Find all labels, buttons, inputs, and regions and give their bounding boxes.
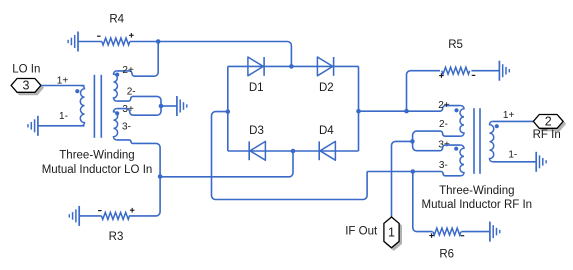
- polarity dot winding 1 LO: [75, 89, 79, 93]
- svg-text:2-: 2-: [439, 119, 448, 130]
- port 1 IF Out: [384, 217, 402, 250]
- svg-text:3: 3: [23, 79, 30, 93]
- svg-text:1-: 1-: [508, 150, 517, 161]
- svg-text:R6: R6: [439, 249, 454, 261]
- polarity dot winding 3 LO: [115, 111, 119, 115]
- label D2: [319, 82, 334, 94]
- label 1- (LO primary): [59, 111, 68, 122]
- wire bridge right to RF winding 2+: [359, 106, 461, 112]
- svg-text:D2: D2: [319, 82, 334, 94]
- ground G5 (R5 reference): [499, 61, 509, 81]
- svg-text:2+: 2+: [122, 65, 134, 76]
- wire RF winding 1+ to port 2: [493, 120, 534, 122]
- node N3 junction 3-/bridge-bottom: [158, 174, 163, 179]
- svg-text:1+: 1+: [503, 110, 515, 121]
- svg-text:3-: 3-: [122, 122, 131, 133]
- node N1 junction R4/2+: [156, 39, 161, 44]
- wire RF winding 1- to ground: [493, 161, 537, 163]
- polarity mark R3 minus: [98, 210, 102, 212]
- label 3- (LO winding3): [122, 122, 131, 133]
- mutual inductor LO core: [94, 75, 101, 138]
- wire node N3 to bridge bottom mid: [160, 151, 293, 177]
- label 3- (RF winding3): [439, 160, 448, 171]
- svg-text:1+: 1+: [57, 76, 69, 87]
- port 2 RF In: [533, 115, 565, 131]
- svg-text:D3: D3: [249, 125, 264, 137]
- node N4 junction D1/D2: [289, 64, 294, 69]
- svg-text:R5: R5: [448, 39, 463, 51]
- wire RF winding 2- to IF bar: [413, 131, 461, 141]
- label RF In: [533, 129, 561, 141]
- label R4: [109, 14, 124, 26]
- polarity mark R5 minus: [472, 74, 476, 76]
- wire bridge right rail: [358, 66, 360, 151]
- diode D1: [248, 57, 264, 76]
- mutual inductor RF: winding 3: [460, 145, 464, 176]
- wire winding 3- down to R3: [117, 140, 160, 216]
- polarity mark R6 plus: [429, 233, 434, 238]
- label 1+ (LO primary): [57, 76, 69, 87]
- wire RF winding 3+ to IF bar: [413, 141, 461, 150]
- mutual inductor LO: winding 3: [114, 109, 118, 140]
- wire LO port to winding 1+: [41, 85, 85, 87]
- svg-text:Mutual Inductor LO In: Mutual Inductor LO In: [42, 164, 153, 176]
- node N9 junction IF tee: [410, 139, 415, 144]
- label R5: [448, 39, 463, 51]
- block name Three-Winding Mutual Inductor RF In: [422, 185, 533, 211]
- wire mid node to ground: [161, 105, 177, 107]
- svg-text:LO In: LO In: [12, 63, 40, 75]
- wire IF bar to port 1: [392, 141, 413, 216]
- mutual inductor RF core: [474, 108, 480, 174]
- label R3: [109, 231, 124, 243]
- wire winding 2- to mid node: [117, 96, 161, 106]
- label 3+ (LO winding3): [122, 104, 134, 115]
- label R6: [439, 249, 454, 261]
- label LO In: [12, 63, 40, 75]
- svg-text:D1: D1: [249, 82, 264, 94]
- wire R5 vertical: [407, 71, 441, 111]
- label 1+ (RF primary): [503, 110, 515, 121]
- polarity mark R3 plus: [130, 208, 135, 213]
- svg-text:1-: 1-: [59, 111, 68, 122]
- label D4: [319, 125, 334, 137]
- mutual inductor RF: winding 1 (primary): [490, 121, 494, 161]
- svg-text:1: 1: [388, 226, 395, 240]
- wire RF 3- net: [367, 172, 461, 176]
- polarity dot winding 2 LO: [115, 73, 119, 77]
- label 1- (RF primary): [508, 150, 517, 161]
- resistor R5: [442, 67, 470, 74]
- svg-text:Three-Winding: Three-Winding: [59, 150, 134, 162]
- diode D4: [319, 141, 335, 160]
- diode D2: [317, 57, 333, 76]
- mutual inductor LO: winding 1 (primary): [80, 86, 84, 126]
- ground G6 (R6 reference): [490, 222, 500, 242]
- wire R4 to bridge top: [130, 42, 292, 67]
- label D3: [249, 125, 264, 137]
- polarity mark R4 minus: [97, 35, 101, 37]
- mutual inductor RF: winding 2: [460, 106, 464, 137]
- wire R5 to ground: [471, 70, 499, 72]
- svg-text:3-: 3-: [439, 160, 448, 171]
- polarity dot winding 2 RF: [454, 108, 458, 112]
- mutual inductor LO: winding 2: [114, 71, 118, 101]
- resistor R4: [102, 38, 130, 45]
- polarity dot winding 3 RF: [454, 147, 458, 151]
- ground G7 (RF 1-): [536, 152, 546, 172]
- svg-text:Mutual Inductor RF In: Mutual Inductor RF In: [422, 199, 533, 211]
- wire bridge bottom rail: [228, 150, 359, 152]
- node N7 junction bridge right: [356, 109, 361, 114]
- svg-text:Three-Winding: Three-Winding: [439, 185, 514, 197]
- polarity mark R6 minus: [461, 235, 465, 237]
- label 2+ (LO winding2): [122, 65, 134, 76]
- node N5 junction D3/D4: [291, 149, 296, 154]
- wire R6 vertical: [413, 172, 433, 232]
- polarity mark R5 plus: [439, 73, 444, 78]
- block name Three-Winding Mutual Inductor LO In: [42, 150, 153, 176]
- node N10 junction R6 tee: [411, 169, 416, 174]
- label D1: [249, 82, 264, 94]
- wire bridge left to RF winding 3- (bottom path): [212, 112, 368, 200]
- svg-text:IF Out: IF Out: [345, 225, 378, 237]
- wire R3 to ground: [79, 215, 101, 217]
- label 2- (LO winding2): [127, 86, 136, 97]
- svg-text:R3: R3: [109, 231, 124, 243]
- diode D3: [249, 141, 265, 160]
- wire node N1 to winding 2+ terminal: [117, 42, 159, 77]
- node N6 junction bridge left: [226, 109, 231, 114]
- ground G2 (LO 1-): [28, 116, 38, 136]
- polarity dot winding 1 RF: [495, 124, 499, 128]
- svg-text:RF In: RF In: [533, 129, 561, 141]
- wire winding 3+ to mid node: [117, 106, 161, 115]
- svg-text:2+: 2+: [438, 100, 450, 111]
- label 2+ (RF winding2): [438, 100, 450, 111]
- svg-text:D4: D4: [319, 125, 334, 137]
- port 3 LO In: [11, 79, 43, 95]
- wire bridge left rail: [227, 66, 229, 151]
- wire bridge top rail: [228, 65, 359, 67]
- resistor R3: [102, 212, 130, 219]
- wire R6 to ground: [461, 231, 490, 233]
- svg-text:2: 2: [545, 115, 552, 129]
- wire R4 ground to resistor: [78, 41, 102, 43]
- ground G4 (R3 reference): [69, 206, 79, 226]
- ground G1 (R4 reference): [68, 32, 78, 52]
- label 3+ (RF winding3): [438, 139, 450, 150]
- node N2 junction mid ground: [159, 104, 164, 109]
- polarity mark R4 plus: [129, 33, 134, 38]
- svg-text:R4: R4: [109, 14, 124, 26]
- node N8 junction R5 tee: [404, 109, 409, 114]
- label 2- (RF winding2): [439, 119, 448, 130]
- resistor R6: [433, 228, 461, 235]
- label IF Out: [345, 225, 378, 237]
- ground G3 (LO center tap): [177, 96, 187, 116]
- wire ground to winding 1-: [38, 125, 85, 127]
